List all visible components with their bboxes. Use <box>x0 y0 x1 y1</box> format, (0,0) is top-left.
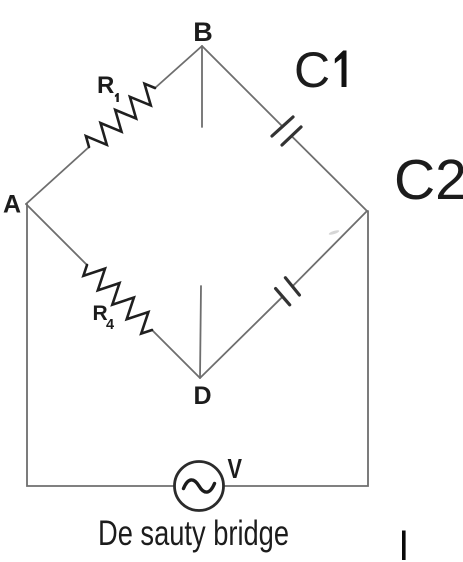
svg-text:C2: C2 <box>394 148 463 212</box>
svg-text:A: A <box>3 191 21 219</box>
svg-text:D: D <box>193 382 211 410</box>
svg-text:De sauty bridge: De sauty bridge <box>98 514 289 553</box>
svg-text:R: R <box>97 72 114 99</box>
svg-text:B: B <box>193 17 213 47</box>
svg-text:C: C <box>294 42 330 98</box>
svg-text:4: 4 <box>106 317 114 333</box>
svg-text:V: V <box>228 453 243 484</box>
